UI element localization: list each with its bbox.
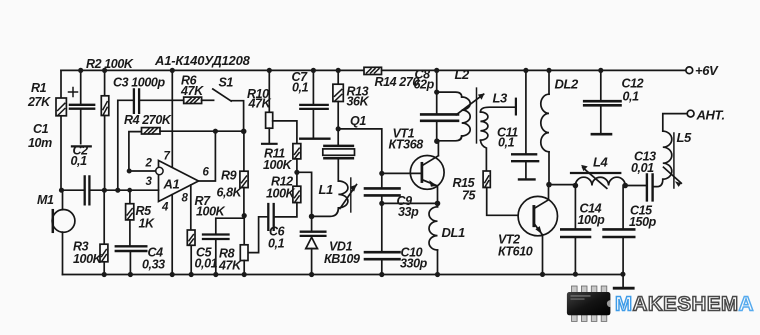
svg-text:R4 270K: R4 270K <box>124 113 172 127</box>
svg-text:330p: 330p <box>400 257 428 271</box>
svg-text:0,01: 0,01 <box>631 161 654 175</box>
svg-text:100K: 100K <box>263 158 293 172</box>
svg-text:L4: L4 <box>593 155 609 170</box>
svg-text:100K: 100K <box>266 187 296 201</box>
svg-text:R2 100K: R2 100K <box>86 57 134 71</box>
svg-text:47K: 47K <box>180 84 204 98</box>
svg-text:1K: 1K <box>139 217 156 231</box>
svg-text:100K: 100K <box>196 205 226 219</box>
svg-text:КТ610: КТ610 <box>498 245 533 259</box>
svg-text:0,01: 0,01 <box>195 257 218 271</box>
svg-text:0,1: 0,1 <box>292 81 309 95</box>
svg-text:47K: 47K <box>218 259 242 273</box>
svg-text:S1: S1 <box>219 76 234 90</box>
svg-text:100p: 100p <box>578 213 606 227</box>
svg-text:Q1: Q1 <box>350 114 366 128</box>
svg-text:7: 7 <box>164 151 171 163</box>
svg-text:А1-К140УД1208: А1-К140УД1208 <box>154 53 251 68</box>
svg-text:3: 3 <box>146 176 153 188</box>
svg-text:АНТ.: АНТ. <box>696 108 725 123</box>
svg-text:0,1: 0,1 <box>268 237 285 251</box>
svg-text:L5: L5 <box>677 130 693 145</box>
svg-text:A1: A1 <box>163 177 180 192</box>
svg-text:6,8K: 6,8K <box>217 186 243 200</box>
svg-text:75: 75 <box>462 189 477 203</box>
svg-text:+6V: +6V <box>695 63 719 78</box>
svg-text:R9: R9 <box>221 169 237 183</box>
svg-text:M1: M1 <box>37 193 54 207</box>
svg-text:47K: 47K <box>248 97 272 111</box>
svg-text:0,1: 0,1 <box>498 136 515 150</box>
svg-text:C12: C12 <box>622 77 644 91</box>
svg-text:DL1: DL1 <box>442 225 466 240</box>
svg-text:0,1: 0,1 <box>71 154 88 168</box>
svg-text:2: 2 <box>145 158 153 170</box>
svg-text:C1: C1 <box>33 122 49 136</box>
svg-text:L3: L3 <box>493 91 509 106</box>
svg-text:100K: 100K <box>73 252 103 266</box>
svg-text:L1: L1 <box>319 182 334 197</box>
svg-text:0,33: 0,33 <box>142 258 165 272</box>
svg-text:КВ109: КВ109 <box>324 252 360 266</box>
svg-text:8: 8 <box>182 193 189 205</box>
svg-text:10m: 10m <box>28 136 52 150</box>
svg-text:R1: R1 <box>31 81 47 95</box>
svg-text:6: 6 <box>203 167 210 179</box>
svg-text:62p: 62p <box>414 78 435 92</box>
svg-text:КТ368: КТ368 <box>389 138 424 152</box>
svg-text:DL2: DL2 <box>555 77 580 92</box>
svg-text:150p: 150p <box>629 215 657 229</box>
svg-text:27K: 27K <box>27 95 51 109</box>
svg-text:MAKESHEMA: MAKESHEMA <box>615 293 754 316</box>
svg-text:0,1: 0,1 <box>623 90 640 104</box>
svg-text:L2: L2 <box>455 67 471 82</box>
svg-text:33p: 33p <box>398 205 419 219</box>
svg-text:C3 1000p: C3 1000p <box>113 76 165 90</box>
svg-text:36K: 36K <box>347 95 370 109</box>
svg-text:4: 4 <box>161 202 169 214</box>
